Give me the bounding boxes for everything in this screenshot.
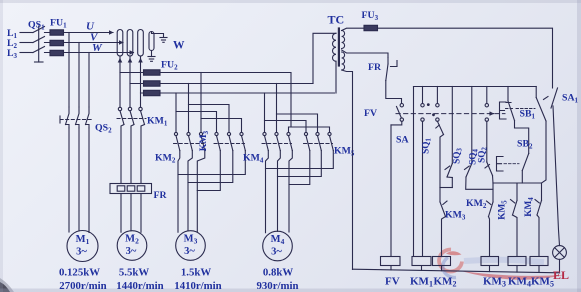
winding coil 1 — [117, 30, 123, 57]
pushbutton SB1 contact a — [506, 87, 529, 154]
wire U drop to QS2 — [68, 33, 70, 108]
limit switch SQ3 — [445, 87, 452, 188]
svg-text:KM1: KM1 — [410, 276, 433, 289]
svg-text:KM4: KM4 — [524, 197, 535, 217]
svg-text:EL: EL — [553, 268, 569, 282]
limit switch SQ4 — [465, 87, 494, 190]
wire KM2 outputs to M3 — [178, 151, 180, 233]
svg-text:3~: 3~ — [184, 246, 195, 257]
wires FR to M2 — [121, 194, 141, 233]
svg-text:FR: FR — [368, 62, 382, 73]
selector SA dashed linkage — [396, 113, 505, 115]
coil FV — [381, 257, 401, 266]
svg-text:KM4: KM4 — [243, 153, 264, 165]
svg-text:1.5kW: 1.5kW — [181, 267, 212, 279]
control top rail — [414, 86, 537, 88]
winding coil 2 — [127, 30, 133, 57]
wire W line — [64, 52, 134, 54]
wire KM5 crossed outputs — [289, 151, 310, 185]
pushbutton head E (SB2) — [497, 157, 520, 172]
wire SQ node to KM3 interlock — [440, 187, 452, 189]
fuse FU2 (three) — [144, 70, 161, 96]
svg-text:SQ3: SQ3 — [453, 148, 464, 164]
transformer TC core — [338, 29, 340, 66]
winding coil 3 — [138, 30, 144, 57]
wires QS2 to M1 — [68, 128, 70, 232]
svg-text:1410r/min: 1410r/min — [174, 280, 221, 292]
svg-text:3~: 3~ — [76, 247, 87, 258]
interlock contact KM3 (above KM2 coil) — [440, 188, 447, 257]
interlock contact KM5 (above KM4 coil) — [511, 183, 518, 257]
wire KM4 outputs to M4 — [266, 151, 269, 233]
svg-text:0.125kW: 0.125kW — [59, 267, 100, 279]
coil KM1 — [412, 257, 431, 266]
svg-text:5.5kW: 5.5kW — [119, 267, 150, 279]
svg-text:QS1: QS1 — [28, 20, 45, 32]
svg-text:2700r/min: 2700r/min — [59, 280, 106, 292]
wire U line — [64, 32, 114, 34]
wire bracket KM2p2-KM3p2 — [189, 105, 230, 133]
wire secondary top to FU3 — [342, 28, 364, 30]
transformer TC secondary winding upper — [342, 31, 345, 49]
switch SA1 — [551, 88, 558, 108]
svg-text:M3: M3 — [184, 234, 198, 246]
svg-text:FR: FR — [154, 190, 168, 201]
svg-text:0.8kW: 0.8kW — [263, 267, 294, 279]
contactor KM4 (3 poles) — [262, 132, 292, 150]
svg-text:SB1: SB1 — [520, 109, 536, 121]
svg-text:SA: SA — [396, 135, 409, 146]
SA wiper arrow — [490, 113, 494, 115]
bottom rail — [353, 269, 560, 273]
coil KM5 — [530, 257, 548, 266]
wire KM3 crossed outputs — [197, 151, 220, 191]
wire phase B (after FU2) — [160, 83, 313, 85]
contactor KM5 (3 poles) — [304, 132, 334, 150]
motor M3 — [176, 231, 206, 261]
winding coil 4 — [149, 32, 154, 51]
wire drop to KM2 pole3 — [200, 73, 202, 133]
fuse FU1 (three) — [50, 30, 64, 56]
contactor KM2 (3 poles) — [174, 132, 205, 150]
wire drop to KM4 pole1 — [264, 93, 266, 132]
svg-text:KM2: KM2 — [155, 153, 176, 165]
wire bracket KM4p3-KM5p3 — [289, 127, 330, 132]
ground (top right of coils) — [160, 38, 167, 43]
svg-text:TC: TC — [328, 13, 345, 27]
coil KM4 — [508, 257, 526, 266]
wire phase C (after FU2) — [160, 92, 335, 94]
junction dot SA 2 — [432, 113, 435, 116]
wire bracket KM4p2-KM5p2 — [277, 114, 318, 132]
motor M1 — [67, 231, 98, 262]
coil bottom stubs — [391, 266, 539, 273]
junction dot SA — [427, 103, 430, 106]
svg-text:M4: M4 — [271, 234, 285, 246]
wire SB2 node — [493, 182, 542, 184]
wire bracket KM4p1-KM5p1 — [265, 121, 307, 133]
interlock contact KM2 (above KM3 coil) — [487, 183, 494, 257]
svg-text:QS2: QS2 — [95, 123, 112, 135]
selector SA contact pair 1 — [421, 87, 424, 257]
switch QS1 — [33, 26, 50, 62]
thermal contact FR — [386, 58, 402, 104]
svg-text:SB2: SB2 — [517, 139, 533, 151]
wire node to control rail — [413, 87, 415, 257]
svg-text:SQ2: SQ2 — [478, 147, 489, 163]
svg-text:W: W — [92, 42, 103, 54]
wire coil4 to ground — [152, 32, 164, 38]
wire secondary tap to FR — [342, 50, 388, 58]
limit switch SQ1 — [436, 121, 444, 187]
svg-text:M2: M2 — [125, 234, 139, 246]
wire coil1 down to KM1 — [119, 56, 121, 107]
pushbutton head E (SB1) — [500, 102, 515, 119]
transformer TC primary lead (bottom) — [335, 61, 337, 93]
svg-text:1440r/min: 1440r/min — [116, 280, 163, 292]
wire L1 stub — [20, 32, 33, 34]
wire V drop to QS2 — [78, 43, 80, 108]
transformer TC primary winding — [333, 33, 337, 61]
motor M2 — [117, 231, 147, 261]
svg-text:KM3: KM3 — [445, 210, 466, 222]
svg-text:3~: 3~ — [126, 246, 137, 257]
wire secondary bottom to left rail — [342, 70, 353, 270]
wire right rail to lamp — [553, 106, 560, 246]
motor M4 — [263, 231, 293, 261]
svg-text:FV: FV — [385, 276, 400, 288]
wiper arrow 2 — [129, 59, 131, 63]
switch QS2 — [60, 107, 92, 128]
wire lamp to bottom rail — [559, 259, 561, 272]
wire coil2 down to KM1 — [129, 56, 131, 107]
svg-text:FU1: FU1 — [50, 18, 67, 30]
fuse FU2 taps — [120, 73, 144, 94]
wire L3 stub — [20, 52, 33, 54]
ground (below coil 4) — [148, 57, 155, 62]
coil KM2 — [433, 257, 451, 266]
wire to FV coil — [390, 125, 392, 257]
wire drop to KM2 pole1 — [175, 93, 177, 132]
svg-text:SQ1: SQ1 — [422, 138, 433, 154]
wire bracket KM2p1-KM3p1 — [176, 112, 217, 133]
wire V line — [64, 42, 124, 44]
fuse FU3 — [364, 25, 378, 30]
svg-text:FU2: FU2 — [161, 60, 178, 72]
wire drop to KM2 pole2 — [188, 84, 190, 133]
limit switch SQ2 — [485, 162, 493, 183]
pushbutton SB1 contact b — [516, 87, 548, 184]
interlock contact KM4 (above KM5 coil) — [535, 183, 542, 257]
svg-text:930r/min: 930r/min — [257, 280, 299, 292]
wire coil4 bottom — [151, 51, 153, 57]
selector SA contact pair 3 — [485, 87, 488, 163]
wire L2 stub — [20, 42, 33, 44]
watermark logo bottom right — [439, 249, 565, 279]
coil KM3 — [481, 257, 499, 266]
transformer TC primary lead (top) — [313, 33, 336, 83]
wiper arrow 1 — [119, 59, 121, 63]
svg-text:SA1: SA1 — [562, 93, 579, 105]
contactor KM3 (3 poles) — [214, 132, 245, 150]
wire coil3 down to KM1 — [140, 56, 142, 107]
wire W drop to QS2 — [88, 53, 90, 108]
wire drop to KM4 pole2 — [276, 84, 278, 133]
relay contact FV — [391, 104, 403, 125]
pushbutton SB2 — [522, 154, 528, 184]
svg-text:KM5: KM5 — [334, 146, 355, 158]
wire FU3 to right rail — [378, 28, 553, 88]
svg-text:FU3: FU3 — [362, 10, 379, 22]
contactor KM1 (3 poles) — [117, 107, 146, 183]
svg-text:KM1: KM1 — [147, 116, 168, 128]
wiper arrow 3 — [140, 59, 142, 63]
svg-text:KM5: KM5 — [498, 200, 509, 220]
svg-text:KM2: KM2 — [466, 198, 487, 210]
wire bracket KM2p3-KM3p3 — [201, 119, 242, 133]
selector SA contact pair 2 — [436, 87, 439, 122]
transformer TC secondary winding lower — [342, 52, 345, 70]
svg-text:3~: 3~ — [271, 247, 282, 258]
thermal relay FR heater — [110, 184, 152, 194]
svg-text:FV: FV — [364, 108, 377, 119]
svg-text:M1: M1 — [76, 234, 90, 246]
wire phase A (after FU2) — [160, 73, 291, 128]
svg-text:W: W — [173, 40, 185, 52]
lamp EL — [553, 246, 567, 260]
dark smudge bottom-left corner — [0, 282, 10, 292]
